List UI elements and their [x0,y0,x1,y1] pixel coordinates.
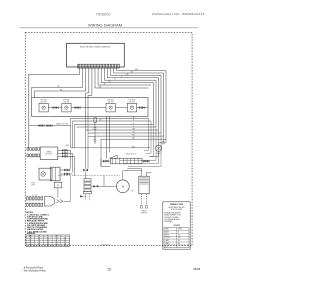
svg-text:110: 110 [178,234,180,236]
svg-text:12: 12 [56,238,58,240]
svg-text:1.5K: 1.5K [178,237,181,239]
door lock motor M1 [116,180,129,193]
svg-text:Y: Y [65,236,66,238]
svg-text:MODULE: MODULE [45,154,53,156]
svg-text:WIRING CODE: WIRING CODE [170,204,184,206]
power cord connector pins [26,197,42,200]
wire S4 to box edge with connectors [137,107,148,109]
wire node junction upper [94,127,96,129]
warning wedge [110,155,118,158]
connector right of terminal block [142,160,150,162]
wiring table [26,235,70,246]
bowtie on motor wire [93,185,95,188]
svg-text:600: 600 [178,243,180,245]
chassis ground dashed wire [58,175,120,177]
strain relief arrows [57,200,64,204]
svg-text:18: 18 [47,241,49,243]
ground arrow [80,195,83,197]
svg-text:16: 16 [30,243,32,245]
junction bowtie connector node [83,169,85,172]
wires EOC to right bus [95,71,166,88]
svg-text:TOP BUR.: TOP BUR. [63,99,71,101]
svg-text:16: 16 [64,240,66,242]
igniter dashed leads [86,194,90,200]
bake igniter leads [141,194,146,206]
wires spark module to right with connectors [58,149,71,151]
wire mid connect [88,136,95,138]
wire rails down from connectors [71,150,75,176]
svg-text:12: 12 [56,243,58,245]
svg-text:IGN. SW.: IGN. SW. [63,101,70,103]
wire down from light switch [57,188,59,198]
header rule [20,27,199,29]
svg-text:16: 16 [30,238,32,240]
svg-text:WIRING DIAGRAM: WIRING DIAGRAM [88,23,122,27]
EOC edge connector P1 [78,64,120,68]
svg-text:R=RED W=WHITE Y=YEL: R=RED W=WHITE Y=YEL [164,215,181,217]
svg-text:BROIL: BROIL [165,234,169,236]
svg-text:TOP BUR.: TOP BUR. [40,99,48,101]
power cord wires [64,200,71,202]
light switch small box [54,182,62,188]
wires oven light to rails with connectors [60,169,71,171]
wires down the middle from EOC [86,71,89,117]
bus wires vertical stubs down-left [71,119,75,148]
svg-text:12: 12 [56,240,58,242]
svg-text:* Non-Illustrated Parts: * Non-Illustrated Parts [22,269,46,272]
svg-text:16: 16 [30,245,32,247]
svg-text:Publication No: 5995441171: Publication No: 5995441171 [152,12,205,16]
spark module connector pins [27,148,39,151]
svg-text:18: 18 [47,243,49,245]
svg-text:OHMS: OHMS [178,229,182,231]
svg-text:IGN. SW.: IGN. SW. [129,101,136,103]
oven burner igniter element [84,179,91,182]
svg-text:15: 15 [107,267,111,271]
svg-text:12: 12 [56,241,58,243]
wires to motor [92,176,117,187]
svg-text:18: 18 [47,245,49,247]
svg-text:OR: OR [55,236,57,238]
svg-text:GN=GREEN: GN=GREEN [164,221,172,223]
svg-text:80: 80 [178,231,180,233]
svg-text:16: 16 [30,241,32,243]
bake igniter housing [139,176,149,194]
svg-text:18: 18 [47,240,49,242]
svg-text:TERM. BLOCK: TERM. BLOCK [125,154,137,156]
svg-text:MOTOR: MOTOR [165,237,170,239]
wire between S1 and S2 with connectors [48,107,62,109]
svg-text:IGN. SW.: IGN. SW. [40,101,47,103]
oven light assembly [39,168,52,180]
svg-text:COLOR: COLOR [173,225,180,227]
svg-text:IGN. SW.: IGN. SW. [107,101,114,103]
wire left rail 2 [32,87,83,97]
igniter terminal box [84,192,92,194]
svg-text:TOP BUR.: TOP BUR. [107,99,115,101]
svg-text:ELECTRONIC OVEN CONTROL: ELECTRONIC OVEN CONTROL [80,47,111,49]
svg-text:16: 16 [64,243,66,245]
svg-text:16: 16 [30,240,32,242]
inline fuse F1 [94,118,96,123]
wires to lamp [159,143,162,145]
spark module A1 [40,147,58,160]
bus return wires below switch assembly [71,119,167,140]
wires into bake igniter [127,169,151,177]
right vertical wire bus [154,71,167,140]
svg-text:18: 18 [47,238,49,240]
top burner ignition switch assembly box [32,98,148,117]
wire between S2 and S3 with connectors [71,107,106,109]
oven lamp [156,145,162,151]
svg-text:FGF337GC: FGF337GC [97,13,112,17]
wire from switch assembly bottom with inline connectors [29,125,66,127]
wire left rail into spark module [27,147,29,149]
svg-text:12: 12 [56,245,58,247]
svg-text:16: 16 [64,238,66,240]
svg-text:316441900: 316441900 [101,245,112,247]
svg-text:R: R [47,236,48,238]
svg-text:M: M [122,185,124,189]
svg-text:TOP BUR.: TOP BUR. [128,99,136,101]
svg-text:240: 240 [178,240,180,242]
svg-text:EOC: EOC [165,246,168,248]
power cord plug body [44,197,54,207]
EOC pin wires (vertical drops) [80,68,117,91]
wire between S3 and S4 with connectors [115,107,127,109]
wire branch BK to switch row [34,91,85,98]
wire into terminal block [101,158,111,166]
electronic oven control EOC [67,43,125,67]
lamp node [161,141,164,144]
svg-text:L (BK): L (BK) [65,145,70,147]
svg-text:16: 16 [64,245,66,247]
svg-text:OVEN: OVEN [31,183,35,185]
svg-text:P.C. BD: P.C. BD [32,195,38,197]
connector left of terminal block [103,160,105,163]
oven light switch [50,167,60,181]
wires down to terminal block [107,116,110,158]
svg-text:W: W [109,81,111,83]
wire bus to components left [149,119,154,157]
svg-text:16: 16 [64,241,66,243]
wire long run to lamp branch [71,147,151,149]
svg-text:BK: BK [29,236,31,238]
chassis enclosure (dashed outline) [25,32,192,245]
svg-text:09/98: 09/98 [193,267,201,271]
legend table [164,228,189,248]
svg-text:LIGHT: LIGHT [31,185,36,187]
wiring code legend box [163,202,190,249]
wire left rail from EOC pin 1 [29,74,80,147]
svg-text:IGNITER: IGNITER [141,213,148,215]
wire node junction [94,139,96,141]
